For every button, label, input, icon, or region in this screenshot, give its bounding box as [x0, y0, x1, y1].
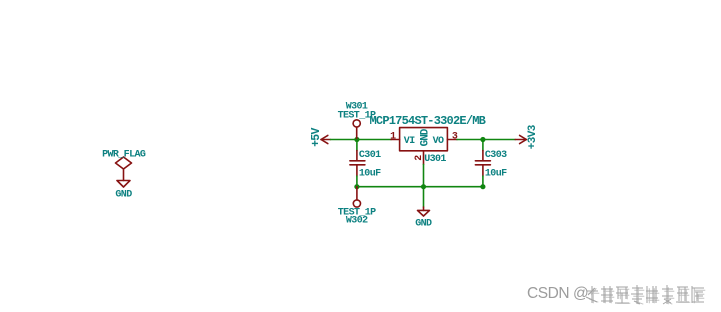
wire top junction to C301 [356, 140, 358, 151]
svg-text:U301: U301 [424, 154, 446, 165]
wire C301 to bottom rail [356, 176, 358, 187]
test point W302 [353, 187, 360, 207]
power symbol +5V [321, 135, 331, 143]
wire top junction to C303 [482, 140, 484, 151]
svg-text:MCP1754ST-3302E/MB: MCP1754ST-3302E/MB [370, 114, 486, 128]
wire VO to +3V3 [457, 139, 515, 141]
capacitor C303 [475, 151, 490, 176]
svg-text:PWR_FLAG: PWR_FLAG [102, 150, 146, 161]
test point W301 [353, 120, 360, 140]
wire bottom rail to GND symbol [423, 187, 425, 207]
svg-text:C303: C303 [485, 150, 507, 161]
svg-text:+5V: +5V [310, 128, 323, 147]
svg-text:GND: GND [115, 189, 132, 200]
svg-text:W302: W302 [346, 216, 368, 227]
watermark CSDN [527, 285, 607, 305]
svg-text:VI: VI [404, 136, 415, 147]
pin 1 of U301 [391, 139, 400, 141]
bottom rail wire [357, 186, 483, 188]
capacitor C301 [350, 151, 365, 176]
junction bottom middle [421, 184, 426, 189]
svg-text:VO: VO [433, 136, 444, 147]
power symbol +3V3 [515, 135, 526, 143]
junction bottom right [480, 184, 485, 189]
svg-text:+3V3: +3V3 [527, 124, 539, 149]
regulator U301 body [400, 128, 448, 151]
svg-text:3: 3 [452, 131, 458, 142]
power flag PWR_FLAG [116, 157, 132, 181]
ground GND (left) [117, 181, 130, 188]
svg-text:10uF: 10uF [485, 168, 507, 179]
svg-text:GND: GND [415, 219, 432, 230]
junction at node VOUT top [480, 137, 485, 142]
svg-text:GND: GND [419, 128, 431, 146]
wire C303 to bottom rail [482, 176, 484, 187]
svg-text:1: 1 [390, 131, 396, 142]
junction at node VIN top [354, 137, 359, 142]
pin 2 of U301 [423, 151, 425, 165]
pin 3 of U301 [447, 139, 457, 141]
junction bottom left [354, 184, 359, 189]
svg-text:10uF: 10uF [359, 168, 381, 179]
wire +5V to VI pin [331, 139, 392, 141]
wire pin2 to bottom rail [423, 164, 425, 186]
svg-text:C301: C301 [359, 150, 381, 161]
ground GND (center) [418, 207, 430, 216]
